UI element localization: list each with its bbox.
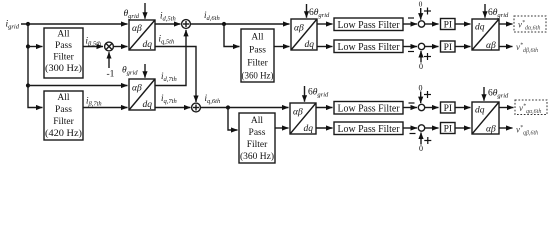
wire PI2 to U5 <box>455 46 471 48</box>
svg-text:6θgrid: 6θgrid <box>488 8 509 19</box>
node junction to APF 300 Hz <box>26 44 30 48</box>
svg-text:Filter: Filter <box>247 59 268 69</box>
svg-text:iβ,5th: iβ,5th <box>86 36 102 48</box>
wire U6 to output v_qa6th <box>499 107 514 109</box>
wire U1 d output to sum S1 <box>155 23 181 25</box>
svg-text:PI: PI <box>444 104 452 114</box>
svg-text:dq: dq <box>475 106 485 116</box>
comparator C2 <box>418 43 424 49</box>
wire U4 to LPF3 <box>316 107 333 109</box>
PI1 box <box>441 19 456 30</box>
svg-text:αβ: αβ <box>486 125 496 135</box>
svg-text:-1: -1 <box>107 70 115 80</box>
wire 6theta into U4 <box>304 86 306 102</box>
wire -1 into multiplier <box>108 52 110 68</box>
svg-text:(360 Hz): (360 Hz) <box>240 151 274 162</box>
svg-text:Filter: Filter <box>53 117 74 127</box>
PI3 box <box>441 102 456 113</box>
svg-text:Pass: Pass <box>249 128 266 138</box>
svg-text:Pass: Pass <box>55 105 72 115</box>
transform U1 alphabeta-dq (5th) <box>129 20 155 50</box>
svg-text:(360 Hz): (360 Hz) <box>242 71 274 82</box>
PI4 box <box>441 123 456 134</box>
svg-text:iq,7th: iq,7th <box>161 93 177 105</box>
svg-text:PI: PI <box>444 125 452 135</box>
wire U5 to output v_db6th <box>499 46 513 48</box>
wire U6 to output v_qb6th <box>499 127 513 129</box>
wire branch into APF 360 Hz top <box>224 24 240 47</box>
wire LPF4 to comparator C4 <box>403 127 417 129</box>
wire theta_grid into U1 <box>144 3 146 19</box>
transform U2 alphabeta-dq (7th) <box>129 79 155 110</box>
wire 6theta into U5 <box>484 4 486 18</box>
svg-text:0: 0 <box>419 62 423 71</box>
svg-text:v*qα,6th: v*qα,6th <box>519 103 541 115</box>
svg-text:αβ: αβ <box>293 108 303 118</box>
wire S1 to transform U3 <box>190 23 289 25</box>
svg-text:All: All <box>251 116 264 126</box>
wire C3 to PI3 <box>425 107 439 109</box>
svg-text:dq: dq <box>304 124 314 134</box>
wire PI1 to U5 <box>455 23 471 25</box>
summer S1 <box>182 20 191 29</box>
wire U2 d output up to sum S1 <box>155 30 186 86</box>
wire 0 into C3 <box>420 92 422 104</box>
wire U2 q output to sum S2 <box>155 107 191 109</box>
svg-text:(420 Hz): (420 Hz) <box>45 128 82 139</box>
multiplier X1 <box>105 42 114 51</box>
dashed box v_da6th <box>514 16 546 32</box>
wire 0 into C2 <box>420 51 422 63</box>
svg-text:All: All <box>57 30 70 40</box>
comparator C4 <box>418 125 424 131</box>
svg-text:v*qβ,6th: v*qβ,6th <box>516 125 538 137</box>
svg-text:αβ: αβ <box>132 84 142 94</box>
wire LPF1 to comparator C1 <box>403 23 417 25</box>
wire APF360 top to U3 dq input <box>274 46 290 48</box>
svg-text:6θgrid: 6θgrid <box>309 8 330 19</box>
svg-text:id,5th: id,5th <box>160 11 176 23</box>
minus sign C4 <box>410 133 416 135</box>
wire C4 to PI4 <box>425 127 439 129</box>
transform U3 alphabeta-dq (6th d-channel) <box>291 19 317 50</box>
svg-text:6θgrid: 6θgrid <box>488 89 509 100</box>
wire multiplier to transform U1 <box>113 46 127 48</box>
transform U4 alphabeta-dq (6th q-channel) <box>290 103 316 134</box>
svg-text:Pass: Pass <box>55 41 72 51</box>
svg-text:0: 0 <box>419 0 423 9</box>
svg-text:αβ: αβ <box>132 24 142 34</box>
svg-text:Filter: Filter <box>247 140 268 150</box>
minus sign C2 <box>408 51 414 53</box>
wire PI4 to U6 <box>455 127 471 129</box>
wire S2 to transform U4 <box>200 107 288 109</box>
svg-text:All: All <box>57 93 70 103</box>
minus sign C1 <box>408 17 414 19</box>
Low Pass Filter 3 box <box>334 102 403 115</box>
plus sign C3 <box>424 91 431 98</box>
Low Pass Filter 4 box <box>334 122 403 135</box>
svg-text:Filter: Filter <box>53 53 74 63</box>
svg-text:0: 0 <box>419 84 423 93</box>
wire C1 to PI1 <box>425 23 439 25</box>
wire C2 to PI2 <box>425 46 439 48</box>
wire vertical i_grid distribution bus <box>28 24 43 108</box>
wire theta_grid into U2 <box>144 64 146 78</box>
svg-text:iq,6th: iq,6th <box>205 93 221 105</box>
svg-text:Low Pass Filter: Low Pass Filter <box>338 19 400 31</box>
All Pass Filter 420 Hz box <box>44 91 83 140</box>
comparator C3 <box>418 104 424 110</box>
svg-text:id,7th: id,7th <box>161 71 177 83</box>
wire 0 into C4 <box>420 133 422 145</box>
wire branch into APF 360 Hz bottom <box>228 108 238 131</box>
svg-text:Low Pass Filter: Low Pass Filter <box>338 102 400 114</box>
svg-text:iβ,7th: iβ,7th <box>86 96 102 108</box>
svg-text:θgrid: θgrid <box>122 66 138 77</box>
svg-text:dq: dq <box>475 23 485 33</box>
plus sign C1 <box>424 8 431 15</box>
wire branch to 7th alpha input <box>28 85 128 87</box>
wire branch into APF 300 Hz <box>28 46 43 48</box>
svg-text:iq,5th: iq,5th <box>159 34 175 46</box>
PI2 box <box>441 41 456 52</box>
plus sign C2 <box>424 53 431 60</box>
wire LPF3 to comparator C3 <box>403 107 417 109</box>
svg-text:dq: dq <box>305 40 315 50</box>
wire U5 to output v_da6th <box>499 23 513 25</box>
plus sign C4 <box>424 137 431 144</box>
svg-text:6θgrid: 6θgrid <box>308 88 329 99</box>
svg-text:PI: PI <box>444 43 452 53</box>
svg-text:All: All <box>251 33 264 43</box>
svg-text:dq: dq <box>143 100 153 110</box>
svg-text:0: 0 <box>419 144 423 153</box>
transform U5 dq-alphabeta (d-channel) <box>472 19 499 50</box>
wire 6theta into U3 <box>306 4 308 18</box>
wire PI3 to U6 <box>455 107 471 109</box>
summer S2 <box>192 103 201 112</box>
Low Pass Filter 2 box <box>334 40 403 53</box>
node junction on i_grid line <box>26 22 30 26</box>
wire i_grid input <box>21 23 128 25</box>
wire LPF2 to comparator C2 <box>403 46 417 48</box>
svg-text:(300 Hz): (300 Hz) <box>45 63 82 74</box>
minus sign C3 <box>409 102 415 104</box>
wire U4 to LPF4 <box>316 127 333 129</box>
node junction to second transform <box>26 83 30 87</box>
wire APF420 to U2 dq input <box>83 107 128 109</box>
wire U3 to LPF1 <box>317 23 333 25</box>
wire APF360 bottom to U4 dq input <box>275 127 289 129</box>
svg-text:Pass: Pass <box>249 46 266 56</box>
svg-text:PI: PI <box>444 21 452 31</box>
wire U3 to LPF2 <box>317 46 333 48</box>
comparator C1 <box>418 21 424 27</box>
svg-text:αβ: αβ <box>486 41 496 51</box>
All Pass Filter 360 Hz bottom box <box>239 113 275 163</box>
All Pass Filter 360 Hz top box <box>241 29 274 82</box>
svg-text:θgrid: θgrid <box>124 9 140 20</box>
svg-text:id,6th: id,6th <box>204 10 220 22</box>
svg-text:Low Pass Filter: Low Pass Filter <box>338 41 400 53</box>
All Pass Filter 300 Hz box <box>44 28 83 78</box>
wire U1 q output down to sum S2 <box>155 47 196 103</box>
node junction i_q6th <box>226 105 230 109</box>
wire 0 into C1 <box>420 8 422 20</box>
svg-text:v*dα,6th: v*dα,6th <box>518 20 540 32</box>
dashed box v_qa6th <box>515 100 547 115</box>
wire APF300 to multiplier <box>83 46 103 48</box>
svg-text:αβ: αβ <box>294 24 304 34</box>
svg-text:dq: dq <box>143 40 153 50</box>
Low Pass Filter 1 box <box>334 18 403 31</box>
svg-text:v*dβ,6th: v*dβ,6th <box>516 42 538 54</box>
node junction i_d6th <box>222 22 226 26</box>
wire 6theta into U6 <box>483 87 485 101</box>
svg-text:Low Pass Filter: Low Pass Filter <box>338 123 400 135</box>
transform U6 dq-alphabeta (q-channel) <box>472 102 499 134</box>
svg-text:igrid: igrid <box>6 20 20 31</box>
